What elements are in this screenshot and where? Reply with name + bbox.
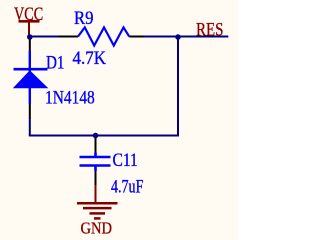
svg-text:VCC: VCC	[14, 5, 43, 25]
svg-text:4.7uF: 4.7uF	[111, 177, 143, 197]
svg-text:4.7K: 4.7K	[73, 49, 107, 69]
svg-text:C11: C11	[113, 151, 138, 171]
svg-text:1N4148: 1N4148	[45, 88, 95, 108]
svg-text:R9: R9	[74, 9, 94, 29]
svg-text:RES: RES	[196, 20, 224, 40]
svg-text:D1: D1	[46, 53, 65, 73]
svg-text:GND: GND	[81, 219, 113, 238]
